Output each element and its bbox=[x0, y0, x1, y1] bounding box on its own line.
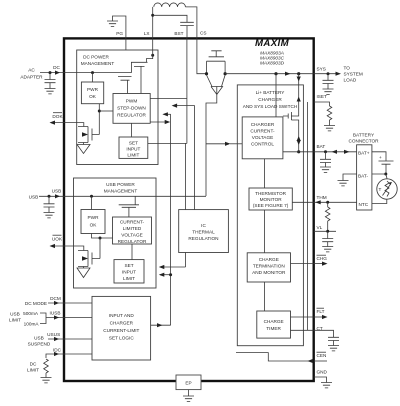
svg-text:CURRENT-: CURRENT- bbox=[120, 220, 145, 225]
svg-text:PWR: PWR bbox=[88, 215, 100, 220]
box USB POWER MANAGEMENT bbox=[74, 178, 157, 288]
svg-text:MANAGEMENT: MANAGEMENT bbox=[104, 189, 138, 194]
svg-text:CEN: CEN bbox=[317, 353, 327, 358]
wire SYS to charger box top bbox=[275, 74, 277, 117]
svg-text:FLT: FLT bbox=[317, 309, 325, 314]
capacitor at CT bbox=[328, 337, 339, 340]
svg-text:BAT-: BAT- bbox=[358, 174, 369, 179]
wire termination to CHG pin bbox=[291, 263, 314, 265]
wire LX to BST capacitor bbox=[153, 15, 187, 22]
svg-text:MAX8903D: MAX8903D bbox=[260, 61, 285, 66]
wire regulator to SET INPUT LIMIT (USB) bbox=[131, 244, 133, 260]
svg-text:100mA: 100mA bbox=[24, 322, 40, 327]
svg-text:UOK: UOK bbox=[52, 237, 63, 242]
node LX switch junction bbox=[151, 54, 154, 57]
svg-text:AND SYS LOAD SWITCH: AND SYS LOAD SWITCH bbox=[243, 104, 297, 109]
svg-text:PWR: PWR bbox=[87, 87, 99, 92]
svg-text:LIMIT: LIMIT bbox=[27, 368, 39, 373]
svg-text:LX: LX bbox=[144, 31, 151, 36]
box CHARGER CURRENT-VOLTAGE CONTROL bbox=[242, 117, 283, 159]
node control bus junction bbox=[169, 273, 172, 276]
svg-text:BST: BST bbox=[174, 31, 183, 36]
transistor Q4 USB top FET bbox=[119, 196, 139, 217]
wire AC adapter to DC pin bbox=[40, 72, 64, 74]
svg-text:BAT+: BAT+ bbox=[358, 151, 370, 156]
svg-text:CHARGER: CHARGER bbox=[251, 122, 275, 127]
svg-text:INPUT AND: INPUT AND bbox=[109, 313, 135, 318]
svg-text:DCM: DCM bbox=[50, 296, 61, 301]
transistor Q6 battery FET bbox=[283, 74, 299, 152]
svg-text:(SEE FIGURE 7): (SEE FIGURE 7) bbox=[253, 203, 289, 208]
wire NTC to thermistor bbox=[372, 199, 387, 203]
wire thermal regulation to USB limit arrow bbox=[160, 253, 186, 268]
transistor Q5 USB path FET bbox=[78, 251, 100, 269]
svg-text:NTC: NTC bbox=[359, 202, 369, 207]
svg-text:Li+ BATTERY: Li+ BATTERY bbox=[256, 90, 286, 95]
arrow into charger current-voltage control bbox=[225, 142, 231, 146]
wire timer to FLT pin bbox=[291, 316, 314, 318]
svg-text:DC POWER: DC POWER bbox=[83, 55, 109, 60]
svg-text:CHARGER: CHARGER bbox=[110, 321, 134, 326]
box THERMISTOR MONITOR bbox=[249, 188, 292, 210]
svg-text:MANAGEMENT: MANAGEMENT bbox=[81, 61, 115, 66]
arrow on SYS wire bbox=[285, 72, 291, 76]
ground at ISET resistor bbox=[324, 126, 335, 131]
svg-text:REGULATION: REGULATION bbox=[188, 236, 218, 241]
ground at BAT- bbox=[338, 181, 349, 186]
arrow DOK output bbox=[50, 121, 56, 125]
wire ISET internal vertical bbox=[307, 102, 309, 330]
box PWR OK (DC) bbox=[81, 82, 103, 104]
svg-text:USB: USB bbox=[29, 194, 39, 199]
svg-text:CHARGE: CHARGE bbox=[259, 257, 279, 262]
node BAT junction bbox=[297, 150, 300, 153]
svg-text:THERMISTOR: THERMISTOR bbox=[255, 191, 287, 196]
ground at EP bbox=[183, 396, 194, 401]
wire inductor to CS bbox=[185, 7, 197, 39]
wire BST capacitor to BST pin bbox=[186, 26, 188, 39]
box CHARGE TIMER bbox=[257, 311, 291, 338]
node LX junction bbox=[151, 14, 154, 17]
wire IDC bbox=[46, 354, 92, 358]
node SYS right junction bbox=[224, 72, 227, 75]
transistor Q1 DC input switch pair bbox=[118, 38, 153, 93]
body diode triangle Q3 bbox=[207, 75, 226, 95]
svg-text:IC: IC bbox=[201, 223, 206, 228]
svg-text:TIMER: TIMER bbox=[266, 326, 281, 331]
battery cell B1 bbox=[379, 161, 394, 164]
pad EP bbox=[176, 375, 201, 390]
node DC junction bbox=[49, 71, 52, 74]
svg-text:SYSTEM: SYSTEM bbox=[344, 72, 363, 77]
thermistor RT1 bbox=[386, 174, 387, 179]
wire USUS bbox=[48, 338, 92, 340]
svg-text:THERMAL: THERMAL bbox=[192, 230, 215, 235]
wire FLT external with arrow bbox=[314, 316, 322, 318]
inductor L1 bbox=[154, 3, 186, 7]
svg-text:+: + bbox=[379, 155, 382, 160]
wire CEN external stub bbox=[314, 360, 327, 362]
switch USB limit select bbox=[40, 313, 92, 324]
box IC THERMAL REGULATION bbox=[179, 210, 229, 253]
pin CS internal wire bbox=[197, 38, 207, 73]
ground at CT cap bbox=[328, 346, 339, 351]
svg-text:THM: THM bbox=[317, 195, 327, 200]
wire PWR OK to PWM regulator bbox=[98, 104, 100, 135]
wire control into vertical node with arrow bbox=[173, 106, 195, 210]
svg-text:LIMIT: LIMIT bbox=[127, 153, 139, 158]
svg-text:VL: VL bbox=[317, 225, 323, 230]
arrow UOK output bbox=[50, 244, 56, 248]
wire BAT- net bbox=[343, 174, 386, 181]
wire ISET external bbox=[314, 102, 330, 106]
wire BAT external bbox=[314, 151, 357, 153]
arrow to system load bbox=[336, 72, 342, 76]
svg-text:GND: GND bbox=[317, 370, 328, 375]
svg-text:CHARGE: CHARGE bbox=[264, 319, 284, 324]
svg-text:CONNECTOR: CONNECTOR bbox=[348, 139, 379, 144]
capacitor at DC input bbox=[49, 73, 51, 80]
svg-text:STEP-DOWN: STEP-DOWN bbox=[117, 106, 146, 111]
wire BST internal chain bbox=[148, 38, 187, 143]
svg-text:DOK: DOK bbox=[52, 114, 63, 119]
svg-text:USUS: USUS bbox=[47, 332, 60, 337]
svg-text:SET: SET bbox=[129, 141, 138, 146]
wire triangle to charger control bbox=[206, 95, 229, 197]
svg-text:USB POWER: USB POWER bbox=[106, 182, 135, 187]
wire timer to CT pin bbox=[291, 329, 314, 331]
wire BAT+ to battery cell bbox=[372, 152, 386, 161]
svg-text:DC: DC bbox=[30, 362, 37, 367]
svg-text:AND MONITOR: AND MONITOR bbox=[252, 270, 286, 275]
pin PG wire to external ground bbox=[113, 16, 126, 38]
arrows bidirectional on battery FET bbox=[297, 77, 301, 82]
svg-text:LIMIT: LIMIT bbox=[123, 276, 135, 281]
svg-text:CURRENT-: CURRENT- bbox=[250, 129, 275, 134]
wire DCM bbox=[48, 302, 92, 304]
capacitor at VL bbox=[327, 231, 329, 238]
wire USB input bbox=[39, 195, 64, 197]
box DC POWER MANAGEMENT bbox=[77, 50, 158, 165]
triangle output Q5 bbox=[77, 268, 90, 278]
wire termination to charge timer bbox=[264, 282, 266, 311]
wire DOK bbox=[51, 123, 84, 127]
IC outline MAX8903 bbox=[64, 38, 314, 381]
svg-text:500mA: 500mA bbox=[23, 311, 39, 316]
svg-text:VOLTAGE: VOLTAGE bbox=[252, 135, 273, 140]
svg-text:SUSPEND: SUSPEND bbox=[28, 342, 51, 347]
svg-text:TO: TO bbox=[344, 66, 351, 71]
svg-text:AC: AC bbox=[28, 68, 35, 73]
ground at SYS cap bbox=[323, 89, 334, 94]
arrow into DC pin bbox=[55, 71, 60, 75]
svg-text:CHARGER: CHARGER bbox=[258, 97, 282, 102]
svg-text:VOLTAGE: VOLTAGE bbox=[121, 233, 142, 238]
wire PWM to SET INPUT LIMIT bbox=[131, 123, 133, 137]
ground at BAT cap bbox=[320, 167, 331, 172]
svg-text:INPUT: INPUT bbox=[126, 147, 140, 152]
wire SET wire to thermal monitor vertical bbox=[185, 143, 187, 209]
wire long vertical control bus bbox=[170, 114, 172, 325]
wire logic output to control bus bbox=[151, 324, 171, 326]
svg-text:ADAPTER: ADAPTER bbox=[20, 75, 43, 80]
svg-text:INPUT: INPUT bbox=[122, 270, 136, 275]
node SYS branch 2 bbox=[297, 72, 300, 75]
svg-text:OK: OK bbox=[90, 223, 98, 228]
svg-text:T: T bbox=[379, 187, 382, 192]
wire DC internal bbox=[64, 72, 132, 74]
svg-text:LIMITED: LIMITED bbox=[123, 226, 142, 231]
capacitor at SYS bbox=[327, 74, 329, 81]
box battery connector bbox=[357, 145, 372, 210]
wire THM external bbox=[314, 201, 357, 203]
svg-text:DC MODE: DC MODE bbox=[25, 301, 47, 306]
box CHARGE TERMINATION AND MONITOR bbox=[247, 253, 290, 282]
node USB internal junction bbox=[90, 195, 93, 198]
wire CEN internal bbox=[236, 353, 311, 361]
wire CT external bbox=[314, 330, 334, 337]
wire control bus to USB limit arrow bbox=[160, 274, 171, 276]
wire charger control to BAT node bbox=[283, 151, 314, 153]
svg-text:DC: DC bbox=[53, 65, 60, 70]
wire charger control to thermistor monitor bbox=[264, 159, 266, 188]
svg-text:OK: OK bbox=[89, 94, 97, 99]
pin LX wire bbox=[152, 7, 154, 39]
ground at USB cap bbox=[44, 213, 55, 218]
capacitor at USB input bbox=[48, 196, 50, 204]
wire SYS internal bbox=[225, 73, 314, 75]
box CURRENT-LIMITED VOLTAGE REGULATOR bbox=[113, 217, 152, 244]
svg-text:SYS: SYS bbox=[317, 67, 326, 72]
node battery negative junction bbox=[384, 173, 387, 176]
arrow into USB pin bbox=[55, 194, 60, 198]
pin PG internal stub bbox=[125, 38, 127, 50]
svg-text:CURRENT-LIMIT: CURRENT-LIMIT bbox=[103, 328, 139, 333]
svg-text:REGULATOR: REGULATOR bbox=[118, 239, 147, 244]
resistor R-IDC bbox=[44, 359, 49, 373]
node SYS left junction bbox=[205, 72, 208, 75]
arrow THM input bbox=[315, 200, 321, 204]
wire VL external bbox=[314, 230, 336, 232]
svg-text:LIMIT: LIMIT bbox=[9, 318, 21, 323]
node DC internal junction bbox=[91, 71, 94, 74]
svg-text:USB: USB bbox=[52, 189, 62, 194]
ground at PG bbox=[107, 21, 118, 26]
svg-text:MONITOR: MONITOR bbox=[260, 197, 283, 202]
wire GND external bbox=[314, 377, 327, 383]
ground at IDC resistor bbox=[41, 378, 52, 383]
svg-text:USB: USB bbox=[34, 336, 44, 341]
svg-text:TERMINATION: TERMINATION bbox=[253, 264, 285, 269]
svg-text:LOAD: LOAD bbox=[344, 78, 357, 83]
wire thermistor monitor to THM pin bbox=[292, 201, 313, 203]
svg-text:SET LOGIC: SET LOGIC bbox=[109, 336, 135, 341]
wire junction to USB PWR OK bbox=[91, 196, 93, 209]
svg-text:ISET: ISET bbox=[317, 94, 328, 99]
ground at VL cap bbox=[322, 247, 333, 252]
svg-text:MAXIM: MAXIM bbox=[255, 38, 290, 49]
box PWM STEP-DOWN REGULATOR bbox=[113, 94, 150, 124]
wire thermistor monitor to termination bbox=[264, 210, 266, 253]
svg-text:CHG: CHG bbox=[317, 256, 328, 261]
wire UOK bbox=[51, 246, 84, 251]
transistor Q3 SYS load switch top bbox=[207, 51, 226, 74]
triangle output Q2 bbox=[77, 145, 90, 154]
svg-text:IUSB: IUSB bbox=[50, 311, 61, 316]
wire USB PWR OK to regulator bbox=[92, 234, 113, 239]
resistor R-ISET bbox=[327, 106, 332, 120]
box SET INPUT LIMIT (USB) bbox=[114, 260, 144, 283]
box INPUT AND CHARGER CURRENT-LIMIT SET LOGIC bbox=[92, 296, 151, 360]
svg-text:CONTROL: CONTROL bbox=[251, 142, 274, 147]
wire CHG external with arrow bbox=[314, 263, 322, 265]
wire USB internal bbox=[64, 195, 206, 197]
svg-text:EP: EP bbox=[185, 381, 191, 386]
svg-text:BATTERY: BATTERY bbox=[353, 133, 375, 138]
wire PWM output right with arrow bbox=[150, 121, 169, 123]
capacitor at BAT bbox=[325, 152, 327, 160]
svg-text:PWM: PWM bbox=[126, 99, 138, 104]
capacitor C-BST bbox=[180, 22, 194, 25]
ground at GND pin bbox=[321, 383, 332, 388]
wire junction to PWR OK bbox=[92, 73, 94, 82]
svg-text:CS: CS bbox=[200, 31, 207, 36]
arrows bidirectional BAT bbox=[332, 150, 338, 154]
node SYS branch 1 bbox=[274, 72, 277, 75]
svg-text:PG: PG bbox=[116, 31, 123, 36]
box PWR OK (USB) bbox=[81, 210, 105, 234]
svg-text:SET: SET bbox=[124, 263, 133, 268]
wire arrow into PWM right bbox=[164, 113, 171, 115]
node USB junction bbox=[48, 195, 51, 198]
arrow CEN input bbox=[308, 359, 314, 363]
svg-text:BAT: BAT bbox=[317, 144, 326, 149]
ground at DC input cap bbox=[45, 89, 56, 94]
wire SYS external bbox=[314, 73, 336, 75]
svg-text:REGULATOR: REGULATOR bbox=[117, 113, 146, 118]
box SET INPUT LIMIT (DC) bbox=[119, 137, 148, 158]
arrow left at y105.6 bbox=[172, 104, 178, 108]
svg-text:USB: USB bbox=[10, 312, 20, 317]
resistor R-THM pullup bbox=[327, 202, 329, 207]
box Li+ BATTERY CHARGER AND SYS LOAD SWITCH bbox=[237, 85, 303, 346]
svg-text:IDC: IDC bbox=[53, 348, 62, 353]
transistor Q2 DC path FET bbox=[78, 127, 99, 145]
